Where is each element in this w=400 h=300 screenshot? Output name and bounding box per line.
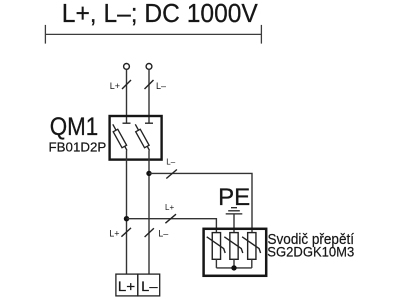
polarity slash on lower L- wire — [145, 228, 154, 237]
svg-text:L+: L+ — [110, 81, 120, 91]
polarity slash on L- branch — [166, 170, 177, 179]
wire L+ from terminal into QM1 — [126, 69, 128, 123]
svg-text:L–: L– — [166, 158, 175, 167]
bottom terminal L+ box — [116, 274, 138, 296]
varistor 1 — [207, 233, 226, 260]
terminal L+ top circle — [124, 64, 130, 70]
junction dot on L- wire — [146, 171, 151, 176]
fuse-switch pole 2 of QM1 — [135, 123, 153, 150]
svg-text:L+: L+ — [118, 278, 136, 294]
polarity slash on L+ branch — [165, 214, 176, 223]
svg-text:PE: PE — [218, 184, 250, 211]
svg-text:L+, L–; DC 1000V: L+, L–; DC 1000V — [62, 0, 258, 28]
svg-text:L+: L+ — [109, 229, 119, 239]
wire L- branch to surge protector — [149, 173, 252, 232]
polarity slash on L+ top wire — [122, 80, 131, 89]
polarity slash on L- top wire — [145, 80, 154, 89]
wire L+ from QM1 down to bottom terminal — [126, 150, 128, 274]
breaker QM1 box — [110, 116, 162, 160]
junction dot on L+ wire — [124, 216, 129, 221]
svg-text:QM1: QM1 — [50, 113, 98, 141]
wire L+ branch to surge protector — [127, 219, 217, 233]
earth symbol above surge protector — [226, 208, 243, 214]
wire L- from terminal into QM1 — [148, 69, 150, 123]
svg-text:L–: L– — [141, 278, 158, 294]
bottom terminal L- box — [138, 274, 160, 296]
wire PE to surge protector — [233, 214, 235, 233]
bus bar joining varistors — [216, 259, 251, 268]
polarity slash on lower L+ wire — [121, 228, 131, 237]
svg-text:FB01D2P: FB01D2P — [49, 139, 107, 154]
varistor 3 — [242, 233, 261, 260]
svg-text:SG2DGK10M3: SG2DGK10M3 — [267, 243, 354, 259]
junction dot on bus — [231, 265, 236, 270]
svg-text:L–: L– — [158, 229, 168, 239]
svg-text:L+: L+ — [165, 203, 174, 212]
terminal L- top circle — [146, 64, 152, 70]
svg-text:L–: L– — [156, 81, 166, 91]
surge protector box — [204, 229, 267, 276]
varistor 2 — [224, 233, 243, 260]
dimension line — [45, 25, 261, 44]
fuse-switch pole 1 of QM1 — [113, 123, 131, 150]
wire L- from QM1 down to bottom terminal — [148, 150, 150, 274]
